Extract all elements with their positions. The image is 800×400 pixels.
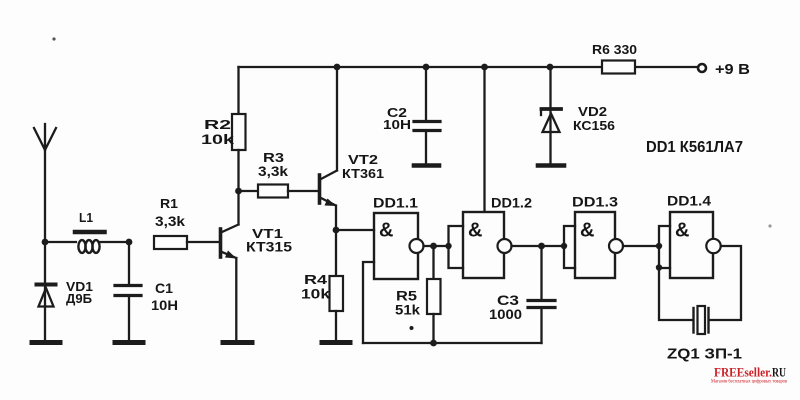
svg-text:R3: R3 <box>263 150 284 165</box>
wire L1 to node B <box>100 241 129 243</box>
capacitor C1 <box>115 242 141 340</box>
gate DD1.3 <box>575 212 623 278</box>
svg-text:51k: 51k <box>395 303 421 318</box>
resistor R2 <box>232 67 246 191</box>
svg-text:&: & <box>379 220 393 242</box>
svg-text:DD1.2: DD1.2 <box>491 195 532 211</box>
inductor L1 <box>75 232 105 253</box>
svg-text:R1: R1 <box>160 196 178 211</box>
gate DD1.2 <box>463 212 512 278</box>
capacitor C3 <box>528 246 555 343</box>
svg-text:10k: 10k <box>301 287 331 302</box>
ground (VD1) <box>32 340 60 345</box>
svg-text:10k: 10k <box>201 132 235 147</box>
svg-text:C3: C3 <box>497 293 520 308</box>
svg-text:R6 330: R6 330 <box>592 42 637 57</box>
svg-text:R2: R2 <box>204 117 231 132</box>
wire DD1.2 output <box>512 245 565 247</box>
node rail/DD1.2 supply <box>481 64 488 71</box>
DD1.4 input bracket <box>659 226 670 268</box>
svg-text:10Н: 10Н <box>151 297 178 313</box>
svg-text:R5: R5 <box>396 289 418 304</box>
svg-text:3,3k: 3,3k <box>258 164 289 179</box>
ground (VD2) <box>538 163 564 168</box>
ground (C2) <box>414 163 439 168</box>
svg-text:ZQ1 ЗП-1: ZQ1 ЗП-1 <box>667 346 742 363</box>
node rail/VT2 emitter <box>334 64 341 71</box>
resistor R4 <box>330 230 344 340</box>
svg-text:FREEseller.: FREEseller. <box>714 365 772 380</box>
node R5 bottom <box>430 340 437 347</box>
svg-text:L1: L1 <box>79 211 93 225</box>
svg-text:1000: 1000 <box>489 307 522 322</box>
node C3 top <box>538 243 545 250</box>
svg-text:RU: RU <box>772 365 786 380</box>
svg-text:&: & <box>580 220 594 242</box>
DD1.2 input bracket <box>449 226 464 268</box>
resistor R3 <box>239 185 319 198</box>
resistor R1 <box>154 236 219 249</box>
watermark FREEseller.RU <box>711 365 788 385</box>
wire DD1.1 input 2 / feedback drop <box>363 262 374 343</box>
svg-text:VD2: VD2 <box>578 104 607 119</box>
wire crystal loop left <box>659 268 692 320</box>
zener diode VD2 <box>541 67 561 164</box>
crystal ZQ1 <box>694 306 709 334</box>
svg-text:&: & <box>468 220 482 242</box>
power rail wire <box>239 66 698 68</box>
speck top left <box>52 37 55 40</box>
svg-text:&: & <box>675 220 689 242</box>
svg-text:КТ361: КТ361 <box>342 166 384 181</box>
svg-text:DD1 К561ЛА7: DD1 К561ЛА7 <box>646 139 743 156</box>
DD1.3 input bracket <box>564 226 575 268</box>
ground (VT1 emitter) <box>223 340 252 345</box>
feedback wire bottom <box>363 342 542 344</box>
svg-text:+9 В: +9 В <box>715 62 750 78</box>
svg-text:R4: R4 <box>304 272 328 287</box>
transistor VT2 <box>320 67 338 230</box>
capacitor C2 <box>414 67 440 164</box>
wire crystal loop right <box>710 246 742 320</box>
svg-text:DD1.3: DD1.3 <box>572 194 618 210</box>
node C (R2 / R3 / VT1 collector) <box>235 188 242 195</box>
node D (VT2 collector / R4 / DD1.1 input) <box>333 227 340 234</box>
transistor VT1 <box>221 191 239 340</box>
svg-text:Магазин бесплатных цифровых то: Магазин бесплатных цифровых товаров <box>711 380 788 385</box>
svg-text:3,3k: 3,3k <box>155 213 185 229</box>
svg-text:10Н: 10Н <box>383 117 411 132</box>
node B (L1 / C1 / R1 junction) <box>126 239 133 246</box>
svg-text:C1: C1 <box>155 280 173 296</box>
terminal +9V <box>698 64 706 72</box>
node rail/VD2 <box>547 64 554 71</box>
node DD1.3 input <box>561 243 567 249</box>
wire node D to DD1.1 input 1 <box>336 229 374 231</box>
svg-text:DD1.4: DD1.4 <box>667 193 711 209</box>
node DD1.4 input <box>656 243 662 249</box>
svg-text:КС156: КС156 <box>573 118 615 133</box>
svg-text:DD1.1: DD1.1 <box>373 195 418 211</box>
asterisk R5 <box>410 326 414 330</box>
svg-text:КТ315: КТ315 <box>246 240 293 255</box>
node DD1.4 feedback <box>656 264 662 270</box>
gate DD1.1 <box>374 213 424 279</box>
speck right <box>768 224 771 227</box>
diode VD1 <box>37 242 56 340</box>
gate DD1.4 <box>670 212 721 278</box>
wire DD1.1 output <box>424 245 449 247</box>
antenna <box>34 124 56 242</box>
ground (R4) <box>322 340 350 345</box>
resistor R6 <box>602 61 635 74</box>
wire rail to DD1.2 top <box>483 67 485 212</box>
wire antenna junction to L1 <box>45 241 76 243</box>
wire DD1.3 output <box>623 245 659 247</box>
node A (antenna / VD1 / L1 junction) <box>42 239 49 246</box>
ground (C1) <box>115 340 143 345</box>
node DD1.2 input <box>445 243 451 249</box>
resistor R5 <box>427 246 441 343</box>
svg-text:Д9Б: Д9Б <box>66 291 92 306</box>
svg-text:VT2: VT2 <box>348 152 378 167</box>
node R5 top <box>430 243 437 250</box>
node rail/C2 <box>423 64 430 71</box>
